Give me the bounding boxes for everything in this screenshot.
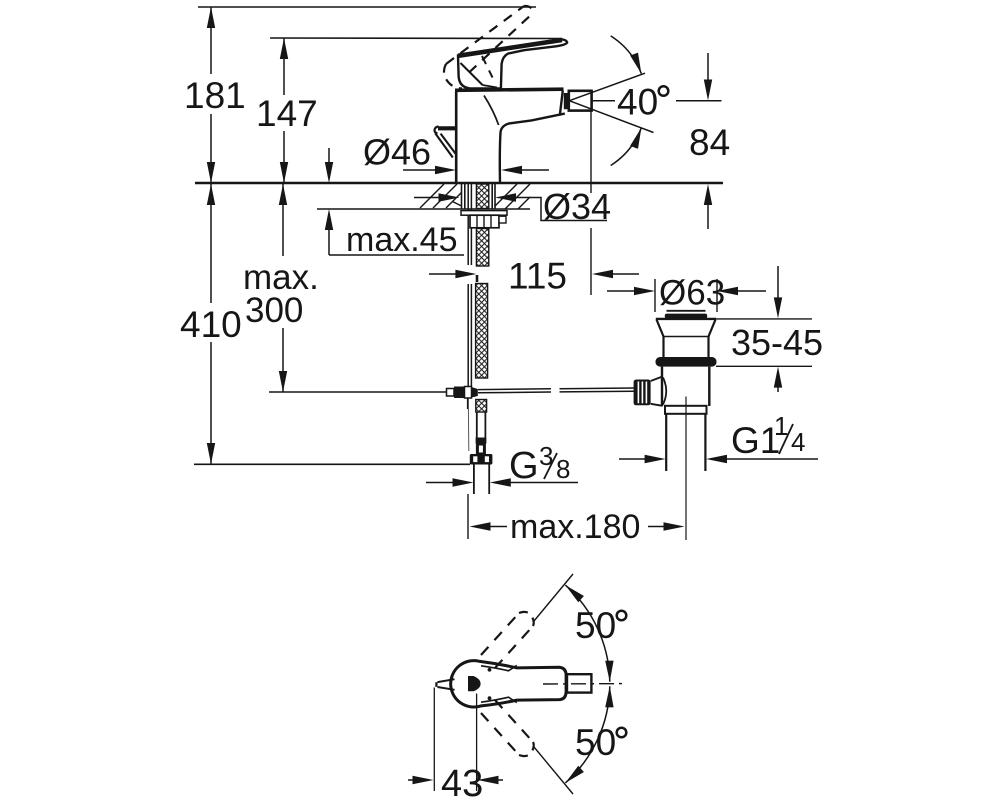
spray cone lower line	[569, 101, 653, 133]
dimension 84 upper arrow	[707, 53, 709, 81]
dimension d46 left arrow	[403, 169, 441, 171]
svg-text:115: 115	[508, 256, 567, 297]
dimension 43 left extension	[433, 688, 435, 792]
pop-up rod twin lines	[467, 184, 469, 265]
handle raised dashed tip arc	[524, 6, 533, 13]
hose fitting with slot	[476, 444, 486, 455]
35-45 top reference line	[716, 318, 812, 320]
dimension max.45 arrows	[328, 148, 330, 163]
dimension 43 left arrow	[408, 779, 421, 781]
drain tailpipe	[665, 414, 667, 471]
hose end nut	[470, 454, 493, 465]
svg-text:50: 50	[575, 605, 616, 646]
svg-text:max.180: max.180	[510, 508, 640, 546]
dimension d46 right arrow	[501, 166, 522, 174]
svg-text:3: 3	[539, 441, 553, 471]
dimension d63 extension lines	[654, 279, 656, 312]
threaded shank crosshatch below nut	[476, 229, 488, 267]
dimension d34 left arrow	[414, 197, 441, 199]
svg-text:4: 4	[791, 427, 805, 457]
drain bottom ring	[665, 406, 707, 414]
svg-text:G1: G1	[731, 420, 780, 461]
second reference line (handle closed height 147)	[270, 37, 562, 40]
handle back inner diagonal	[461, 63, 483, 85]
dimension G1 1/4 right arrow with underline	[706, 455, 727, 463]
shank wall lines	[464, 184, 466, 209]
dimension 115 left arrow	[429, 273, 457, 275]
faucet pillar right edge and spout underside	[500, 114, 565, 183]
mounting hole right edge	[494, 184, 496, 209]
svg-text:147: 147	[256, 93, 318, 134]
rod lower tail	[467, 398, 469, 409]
top view: upper dashed tip arc	[519, 612, 534, 626]
max.45 leader underline	[329, 254, 464, 256]
drain flange sides	[657, 320, 664, 337]
svg-text:G: G	[509, 445, 539, 487]
top view: lower dashed tip arc	[519, 742, 534, 756]
dimension G3/8 right arrow	[490, 478, 511, 486]
dimension max.180 left arrow	[470, 522, 491, 530]
pop-up rod junction block small left	[447, 389, 455, 397]
svg-text:410: 410	[180, 304, 242, 345]
40 deg lower arc	[611, 128, 642, 166]
drain ball housing arc	[663, 378, 666, 405]
dimension G1 1/4 left arrow	[619, 458, 649, 460]
top view: lever bottom sliver line	[481, 697, 517, 702]
threaded shank crosshatch in deck	[476, 184, 488, 209]
svg-text:50: 50	[575, 722, 616, 763]
handle raised position (dashed) line 1	[446, 6, 524, 64]
mounting nut side step	[499, 216, 506, 223]
handle raised dashed back	[444, 64, 462, 89]
top view: lever end cap	[567, 674, 591, 692]
svg-text:Ø34: Ø34	[543, 186, 611, 227]
svg-text:35-45: 35-45	[731, 322, 823, 363]
top view: lower dashed lever line B	[495, 700, 533, 742]
handle raised position (dashed) line 2	[469, 13, 533, 73]
50 deg upper arc	[565, 585, 609, 682]
svg-text:Ø46: Ø46	[363, 132, 431, 173]
svg-text:Ø63: Ø63	[659, 274, 725, 313]
top view: centerline dash-dot	[543, 683, 623, 685]
mounting hole left edge	[461, 184, 463, 209]
spray cone upper line	[569, 73, 645, 101]
mounting washer plate	[461, 211, 507, 216]
svg-text:max.45: max.45	[346, 221, 458, 259]
spout inner fillet curve	[484, 96, 499, 126]
top reference line (handle raised height 181)	[198, 6, 536, 8]
deck hatching left of hole	[420, 184, 462, 208]
40 deg upper arc	[611, 36, 642, 74]
faucet body top edge	[455, 89, 564, 90]
spout outlet projection line	[590, 111, 592, 193]
faucet body right edge above spout	[560, 91, 563, 116]
drain collar line	[664, 336, 709, 338]
svg-text:40: 40	[617, 82, 658, 123]
aerator dark strip	[564, 93, 569, 109]
aerator block	[569, 91, 592, 111]
deck hatching right of hole	[495, 184, 531, 209]
flex hose crosshatch lower	[476, 400, 487, 413]
dimension 35-45 upper arrow	[777, 266, 779, 299]
junction block dark middle	[454, 387, 465, 399]
dimension d63 left arrow	[607, 290, 637, 292]
dimension 43 right extension	[476, 694, 478, 792]
dimension max.300 vertical line	[282, 184, 284, 256]
dimension 115 right arrow	[592, 270, 613, 278]
drain rubber seal	[656, 357, 717, 367]
drain body sides	[661, 367, 663, 406]
top view: upper dashed lever line A	[481, 613, 519, 655]
hose stub tick below 115 arrow	[476, 275, 479, 282]
40 deg leader right	[676, 100, 722, 102]
horizontal pop-up rod to drain	[478, 388, 551, 391]
dimension d63 right arrow	[717, 287, 738, 295]
top view: lever top sliver line	[481, 665, 517, 670]
dimension 35-45 lower arrow	[774, 367, 782, 388]
junction block dark wedge	[472, 387, 478, 398]
svg-text:300: 300	[245, 291, 303, 330]
faucet body left edge	[455, 91, 458, 183]
35-45 bottom reference line	[716, 365, 812, 367]
flex hose tube below crosshatch	[476, 412, 478, 438]
pop-up rod reference line (max.300 bottom ref)	[269, 391, 446, 393]
50 deg lower arc	[565, 686, 609, 783]
dimension 181 vertical line	[210, 7, 212, 74]
svg-text:84: 84	[689, 122, 730, 163]
svg-text:181: 181	[184, 75, 246, 116]
drain knob cone	[651, 377, 663, 382]
flex hose crosshatch upper	[476, 284, 488, 379]
top view: lower dashed lever line A	[481, 713, 519, 755]
drain knurled knob	[634, 380, 651, 406]
drain flange top line	[656, 318, 716, 320]
dimension 410 vertical line	[210, 184, 212, 303]
deck bottom line (max.45 lower ref)	[317, 208, 530, 210]
pop-up rod knob at body rear	[438, 126, 456, 130]
svg-text:43: 43	[441, 763, 483, 800]
deck / counter top line	[195, 182, 723, 185]
dimension 43 right arrow	[478, 776, 499, 784]
handle top edge thick stroke	[458, 40, 562, 56]
drain centerline	[685, 397, 687, 541]
junction block white center	[465, 387, 472, 399]
handle lever (solid, closed position)	[458, 39, 567, 88]
50 deg lower boundary line	[534, 747, 573, 794]
dimension max.180 right arrow	[648, 526, 669, 528]
top view: cartridge dark blob	[468, 676, 481, 691]
handle raised dashed neck line	[482, 56, 493, 78]
hose dark collar	[476, 438, 487, 444]
top view: upper dashed lever line B	[495, 626, 533, 668]
dimension 147 vertical line	[283, 38, 285, 95]
drain neck sides	[662, 337, 664, 358]
bottom reference line (hose end plane, 410 bottom)	[194, 463, 470, 465]
dimension d34 right arrow with leader to label	[495, 193, 516, 201]
G3/8 thread stub	[473, 465, 475, 495]
dimension G3/8 left arrow	[426, 482, 456, 484]
40 deg leader left	[592, 100, 615, 102]
dimension max.180 left extension	[467, 494, 469, 539]
top view: handle body and lever outline	[451, 661, 566, 707]
top view: spout tip at left	[438, 679, 455, 682]
top view: lever dots	[488, 668, 492, 672]
drain waste cap top	[667, 310, 706, 312]
50 deg upper boundary line	[534, 574, 573, 621]
dimension 84 lower arrow	[704, 184, 712, 205]
svg-text:8: 8	[556, 454, 570, 484]
mounting nut	[470, 215, 499, 228]
